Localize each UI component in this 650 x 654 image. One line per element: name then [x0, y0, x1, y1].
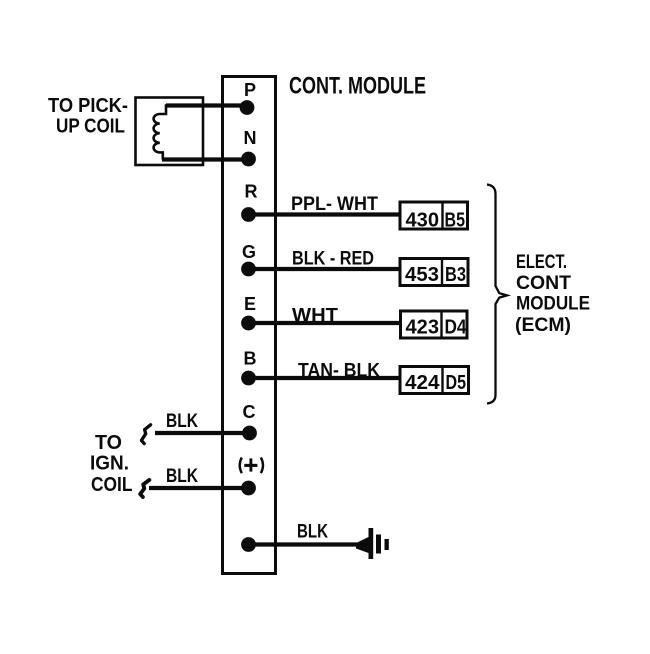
- svg-text:TO PICK-: TO PICK-: [48, 95, 128, 117]
- svg-text:430: 430: [406, 210, 440, 232]
- svg-text:BLK: BLK: [166, 466, 198, 487]
- connector J1 (cont. module connector body): [223, 77, 276, 574]
- bottom ground pin: [241, 537, 256, 552]
- svg-text:G: G: [242, 242, 256, 262]
- svg-text:B5: B5: [445, 210, 466, 232]
- wire G to box 453: [249, 267, 401, 271]
- ground symbol: [356, 528, 389, 559]
- svg-text:BLK: BLK: [166, 411, 198, 432]
- svg-text:CONT: CONT: [516, 273, 571, 294]
- svg-text:N: N: [244, 128, 257, 148]
- wire to ign coil (C): [155, 431, 250, 435]
- svg-text:ELECT.: ELECT.: [516, 252, 567, 273]
- wire pickup to pin N: [162, 157, 249, 161]
- svg-text:453: 453: [405, 264, 439, 286]
- svg-text:424: 424: [405, 372, 440, 394]
- inductor L1 (pick-up coil winding): [154, 106, 204, 160]
- wire pickup to pin P: [166, 103, 247, 107]
- svg-text:D4: D4: [445, 317, 468, 339]
- svg-text:B: B: [244, 349, 257, 369]
- svg-text:WHT: WHT: [292, 306, 338, 327]
- svg-text:BLK: BLK: [297, 522, 328, 543]
- svg-text:(ECM): (ECM): [515, 315, 571, 336]
- svg-text:D5: D5: [446, 372, 467, 394]
- svg-text:UP COIL: UP COIL: [56, 116, 125, 138]
- wire-end hook (+): [140, 480, 149, 497]
- wire to ground: [249, 542, 358, 546]
- wire R to box 430: [249, 212, 401, 216]
- svg-text:BLK - RED: BLK - RED: [292, 249, 374, 270]
- svg-text:P: P: [244, 80, 256, 100]
- wire E to box 423: [249, 321, 401, 325]
- svg-text:TAN- BLK: TAN- BLK: [298, 361, 380, 382]
- svg-text:COIL: COIL: [91, 474, 133, 496]
- brace (ECM group): [487, 185, 507, 404]
- svg-text:423: 423: [406, 317, 440, 339]
- wire-end hook C: [141, 425, 150, 444]
- wire to ign coil (+): [149, 486, 249, 490]
- circuit box 423/D4: [401, 311, 468, 339]
- svg-text:CONT. MODULE: CONT. MODULE: [289, 73, 426, 100]
- pin (+): [240, 458, 263, 474]
- svg-text:MODULE: MODULE: [516, 294, 590, 315]
- circuit box 430/B5: [400, 202, 468, 232]
- circuit box 424/D5: [400, 367, 469, 395]
- svg-text:IGN.: IGN.: [90, 453, 129, 475]
- pick-up coil box: [136, 98, 204, 166]
- svg-text:PPL- WHT: PPL- WHT: [291, 194, 378, 215]
- svg-text:E: E: [244, 294, 256, 314]
- circuit box 453/B3: [400, 259, 468, 287]
- svg-text:TO: TO: [95, 432, 122, 454]
- wire B to box 424: [249, 376, 401, 380]
- svg-text:C: C: [243, 402, 256, 422]
- svg-text:B3: B3: [445, 264, 466, 286]
- svg-text:R: R: [245, 182, 258, 202]
